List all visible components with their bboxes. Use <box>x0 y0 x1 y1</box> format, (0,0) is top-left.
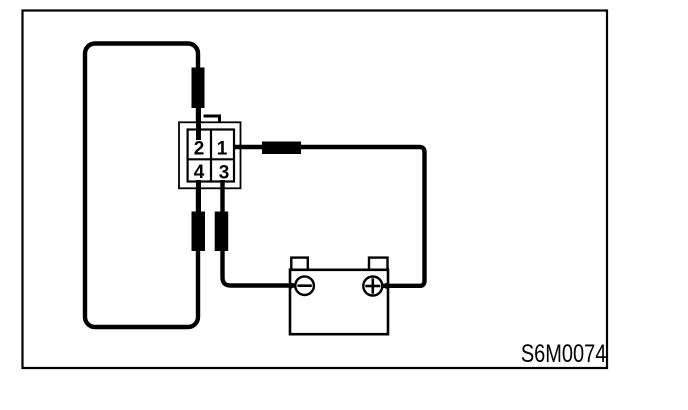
wire from pin 3 to battery minus <box>223 180 297 286</box>
svg-text:S6M0074: S6M0074 <box>521 340 607 368</box>
battery terminal post right <box>369 258 388 270</box>
junction dot at battery minus lead <box>288 283 294 289</box>
connector pin grid <box>188 130 234 182</box>
wire from pin 1 to battery plus <box>234 147 425 286</box>
connector body outer <box>179 122 241 188</box>
wire stub from pin 4 <box>196 180 201 216</box>
wire loop (component lead loop, pins 2-4) <box>85 44 198 328</box>
junction dot at battery plus lead <box>384 283 390 289</box>
wire sleeve blob on pin 4 lead <box>192 212 206 252</box>
svg-text:1: 1 <box>217 139 228 160</box>
connector lock tab <box>204 116 220 122</box>
battery terminal post left <box>291 258 308 270</box>
svg-text:2: 2 <box>194 139 205 160</box>
border frame <box>23 11 608 369</box>
wire stub into pin 2 <box>196 104 201 140</box>
battery minus terminal <box>295 276 314 295</box>
battery body <box>290 270 388 334</box>
wire sleeve blob on pin 3 lead <box>215 212 229 252</box>
svg-text:4: 4 <box>194 162 205 183</box>
wire sleeve blob on pin 2 lead <box>192 68 205 109</box>
battery plus terminal <box>363 277 382 296</box>
wire sleeve blob on pin 1 lead <box>262 142 301 155</box>
